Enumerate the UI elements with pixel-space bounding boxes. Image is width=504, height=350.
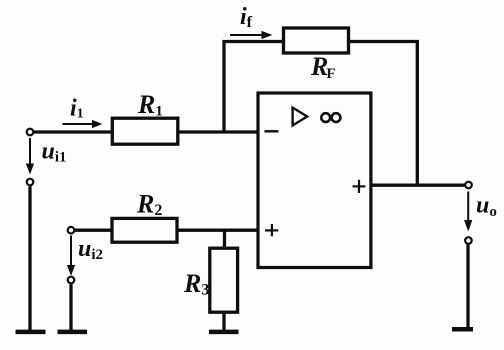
terminal u_o bottom [465,237,472,244]
resistor R2 [112,218,177,242]
svg-text:R2: R2 [136,190,162,220]
arrow u_o voltage [467,192,469,222]
wire input2 to R2 [75,229,113,232]
wire R3 bottom to ground [222,312,225,332]
svg-text:RF: RF [310,52,336,82]
wire R1 to op-amp inverting input [177,130,258,133]
wire feedback vertical right [416,40,419,185]
arrow if current [230,34,263,36]
op-amp U1 box [258,93,371,268]
svg-text:uo: uo [476,192,497,220]
resistor RF [284,28,349,53]
wire feedback vertical from inverting node [222,40,225,131]
arrow u_i2 voltage [70,236,72,267]
resistor R1 [112,118,178,144]
wire op-amp output [371,184,465,187]
svg-text:i1: i1 [70,96,84,122]
op-amp output plus sign [353,185,366,187]
wire feedback top horizontal left [223,40,285,43]
ground R3 [209,330,239,335]
ground u_i1 [16,330,46,335]
wire u_o bottom to ground [466,245,469,329]
terminal u_i2 top [68,227,75,234]
op-amp infinity gain symbol [321,113,330,122]
ground u_o [452,327,473,332]
op-amp non-inverting input plus sign [265,229,278,231]
op-amp triangle symbol [293,108,308,126]
terminal u_i2 bottom [68,277,75,284]
terminal u_o top [465,182,472,189]
svg-text:ui1: ui1 [42,139,67,166]
svg-text:ui2: ui2 [78,236,103,263]
arrow u_i1 voltage [29,138,31,165]
wire R3 tap down [223,230,226,248]
wire RF to right vertical [348,40,419,43]
terminal u_i1 bottom [27,179,34,186]
svg-text:R3: R3 [183,269,209,299]
arrow i1 current [63,123,94,125]
svg-text:if: if [240,4,253,31]
resistor R3 [210,248,238,312]
terminal u_i1 top [27,129,34,136]
wire R2 to op-amp non-inverting input [177,229,258,232]
wire input1 to R1 [34,130,114,133]
op-amp inverting input minus sign [265,130,279,132]
wire u_i1 bottom to ground [28,186,31,332]
ground u_i2 [58,330,88,335]
svg-text:R1: R1 [137,90,163,120]
wire u_i2 bottom to ground [69,284,72,332]
